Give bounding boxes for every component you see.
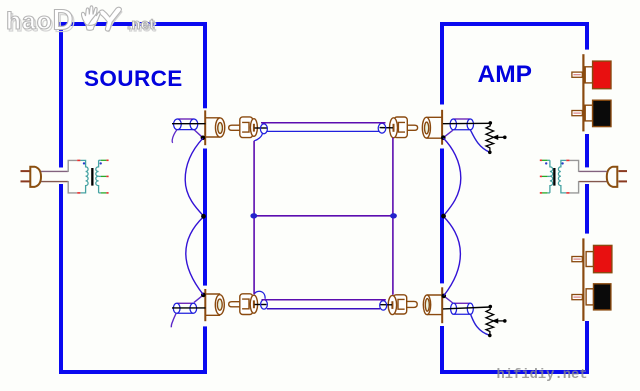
- svg-text:hao: hao: [6, 8, 53, 35]
- T2 phase dot right: [561, 162, 563, 164]
- T1 secondary stub bottom: [99, 192, 101, 194]
- T1 phase dot primary: [83, 162, 85, 164]
- logo main outline layer: [6, 5, 155, 37]
- shield ring R1: [260, 124, 267, 134]
- wire jog lower to T2: [569, 181, 578, 193]
- shield ring R4: [380, 301, 387, 310]
- pin marker red T2 primary bottom: [566, 192, 569, 194]
- wire left wall SOURCE upper: [59, 22, 63, 168]
- T1 core: [91, 168, 93, 186]
- terminal dot VR1 wiper: [503, 136, 507, 140]
- RCA jack J4 body: [423, 295, 442, 315]
- wire right wall SOURCE middle: [203, 149, 207, 286]
- wire plug P1 upper lead: [41, 170, 68, 172]
- wire ground curve J3 to chassis dot AMP: [443, 138, 460, 216]
- wire ground curve chassis dot to J2: [186, 217, 204, 295]
- plug body P1: [30, 167, 41, 187]
- SOURCE chassis box (blue): [59, 22, 207, 374]
- wire shield link J4 ground to C4: [444, 296, 453, 303]
- mains wires AMP side: [566, 160, 607, 193]
- svg-text:hifidiy.net: hifidiy.net: [497, 367, 588, 383]
- RCA jack J3 body: [422, 117, 442, 138]
- wire jog upper to T1: [68, 160, 77, 172]
- binding post BP3 red (lower): [572, 245, 612, 272]
- wire right wall SOURCE lower: [203, 326, 207, 370]
- T2 secondary lead green bottom: [542, 192, 547, 194]
- pin marker red T2 primary top: [566, 159, 569, 161]
- pin marker red T1 primary top: [77, 159, 80, 161]
- cable bottom shield upper line: [262, 299, 386, 301]
- prong upper P1: [21, 170, 30, 172]
- T1 secondary stub top: [99, 159, 101, 161]
- cable end cylinder C4 (bottom right): [451, 303, 474, 314]
- wire right wall AMP middle lower: [585, 184, 589, 234]
- svg-text:AMP: AMP: [478, 61, 532, 88]
- wire hook R1 to vertical: [254, 133, 262, 141]
- wire left wall AMP middle: [440, 149, 444, 284]
- T2 secondary lead green top: [542, 159, 547, 161]
- wire right wall SOURCE upper: [203, 26, 207, 108]
- wire top wall SOURCE: [59, 22, 207, 26]
- binding post BP4 black (lower): [572, 284, 611, 310]
- wire left wall AMP upper: [440, 26, 444, 105]
- terminal dot VR1 bottom: [488, 151, 492, 155]
- wire center conductor J3 to pot: [443, 122, 490, 124]
- cable end cylinder C3 (top right): [450, 119, 473, 130]
- cable top shield upper line: [261, 122, 386, 124]
- T1 phase dot secondary: [100, 162, 102, 164]
- T2 phase dot left: [545, 162, 547, 164]
- RCA jack J2 body: [205, 294, 224, 315]
- RCA jack J2 mount bar (bottom left): [204, 289, 206, 321]
- wire ground tail C1: [172, 130, 177, 143]
- wire ground tail C2: [171, 314, 176, 328]
- transformer T2 (AMP): [540, 160, 566, 193]
- wire shield C3 to pot bottom: [470, 130, 489, 152]
- T1 secondary winding: [96, 160, 99, 193]
- junction dot J1 ground: [201, 136, 206, 141]
- svg-text:.net: .net: [127, 17, 155, 33]
- wire right wall AMP middle upper: [585, 134, 589, 167]
- wire right wall AMP upper: [585, 26, 589, 50]
- svg-text:SOURCE: SOURCE: [84, 66, 183, 91]
- wire shield link C1 to J1 ground: [194, 130, 203, 138]
- junction dot SOURCE chassis: [201, 214, 206, 219]
- wire left wall AMP lower: [440, 326, 444, 370]
- wire left wall SOURCE lower: [59, 184, 63, 374]
- AMP chassis box (blue): [440, 22, 589, 374]
- T2 primary winding: [558, 160, 566, 193]
- AC plug P2 (right): [607, 167, 627, 187]
- T2 pin marker red sec mid: [540, 175, 542, 177]
- wire shield C4 to pot bottom: [471, 314, 490, 335]
- wire plug P2 lower lead: [579, 181, 607, 183]
- T2 secondary stub top: [547, 159, 550, 161]
- T2 secondary lead green mid: [542, 175, 547, 177]
- terminal dot VR2 bottom: [488, 334, 492, 338]
- pin line PL2: [380, 127, 393, 129]
- T1 secondary lead green mid: [101, 175, 106, 177]
- shield ring R2: [378, 123, 386, 133]
- wire jog lower to T1: [68, 181, 77, 193]
- wire shield link J3 ground to C3: [443, 130, 453, 138]
- wire ground curve chassis dot to J4 AMP: [444, 217, 461, 296]
- pin marker red T1 primary bottom: [77, 192, 80, 194]
- RCA jack J1 body: [205, 118, 225, 137]
- cable end cylinder C2 (bottom left): [173, 303, 196, 313]
- wire ground curve J1 to chassis dot: [185, 138, 203, 216]
- wire plug P2 upper lead: [579, 170, 607, 172]
- prong upper P2: [619, 170, 628, 172]
- pin line PL1: [255, 127, 268, 129]
- cable end cylinder C1 (top left): [174, 119, 198, 130]
- wire shield link C2 to J2 ground: [194, 295, 203, 303]
- logo shadow layer: [8, 7, 157, 39]
- T2 pin marker red sec top: [540, 159, 542, 161]
- wire center conductor J2: [172, 307, 206, 309]
- prong lower P1: [21, 180, 30, 182]
- junction dot AMP chassis: [441, 214, 446, 219]
- RCA plug PL2 (top right, points right): [390, 117, 418, 138]
- logo Y glyph: [99, 7, 122, 31]
- T1 secondary lead green bottom: [101, 192, 106, 194]
- junction dot link left: [250, 213, 257, 218]
- binding post bar upper: [582, 54, 584, 131]
- potentiometer VR2 (bottom): [486, 308, 504, 336]
- T2 secondary stub mid: [547, 175, 550, 177]
- wire right wall AMP lower: [585, 321, 589, 370]
- junction dot J2 ground: [201, 293, 206, 298]
- watermark haoDIY.net logo: [6, 5, 156, 39]
- AC plug P1 (left): [21, 167, 42, 187]
- potentiometer VR1 (top): [486, 124, 504, 152]
- binding post BP1 red (upper): [572, 61, 611, 89]
- svg-text:D: D: [53, 5, 74, 37]
- binding post bar lower: [582, 238, 584, 321]
- mains wires SOURCE side: [41, 160, 80, 193]
- hand glyph in logo: [82, 6, 101, 31]
- T1 pin marker red sec bottom: [106, 192, 108, 194]
- pin line PL4: [380, 304, 393, 306]
- transformer T1 (SOURCE): [80, 160, 108, 193]
- wire jog upper to T2: [569, 160, 578, 172]
- T2 pin marker red sec bottom: [540, 192, 542, 194]
- T2 secondary stub bottom: [547, 192, 550, 194]
- wire ground vertical right: [392, 138, 394, 295]
- terminal dot VR1 top: [489, 121, 493, 125]
- wire center conductor J4 to pot: [443, 307, 490, 309]
- T1 secondary stub mid: [99, 175, 101, 177]
- hand palm slash: [89, 13, 98, 25]
- junction dot J3 ground: [441, 135, 446, 140]
- wire hook vertical to R3: [254, 291, 265, 299]
- RCA jack J1 mount bar (top left): [204, 110, 206, 145]
- wire bottom wall SOURCE: [59, 370, 207, 374]
- wire plug P1 lower lead: [41, 181, 68, 183]
- junction dot J4 ground: [442, 294, 447, 299]
- prong lower P2: [619, 180, 628, 182]
- cable top shield lower line: [267, 130, 380, 132]
- shield ring R3: [261, 300, 268, 309]
- RCA plug PL1 (top left, points left): [229, 117, 258, 138]
- pin line PL3: [255, 304, 267, 306]
- T2 core: [553, 168, 555, 186]
- T1 secondary lead green top: [101, 159, 106, 161]
- RCA plug PL4 (bottom right, points right): [388, 295, 417, 315]
- wire bottom wall AMP: [440, 370, 589, 374]
- hand wrist cuff: [86, 24, 95, 30]
- cable bottom shield lower line: [267, 308, 380, 310]
- T1 pin marker red sec top: [106, 159, 108, 161]
- RCA jack J4 mount bar (bottom right): [441, 287, 443, 323]
- plug body P2: [607, 167, 618, 187]
- junction dot link right: [390, 213, 397, 218]
- RCA jack J3 mount bar (top right): [441, 110, 443, 145]
- RCA plug PL3 (bottom left, points left): [229, 294, 258, 315]
- wire ground vertical left: [253, 141, 255, 294]
- wire ground link horizontal: [254, 215, 393, 217]
- wire center conductor J1: [172, 123, 206, 125]
- T1 pin marker red sec mid: [106, 175, 108, 177]
- T1 primary winding: [80, 160, 88, 193]
- terminal dot VR2 wiper: [503, 319, 507, 323]
- wire top wall AMP: [440, 22, 589, 26]
- binding post BP2 black (upper): [572, 100, 611, 126]
- T2 secondary winding: [550, 160, 553, 193]
- terminal dot VR2 top: [489, 305, 493, 309]
